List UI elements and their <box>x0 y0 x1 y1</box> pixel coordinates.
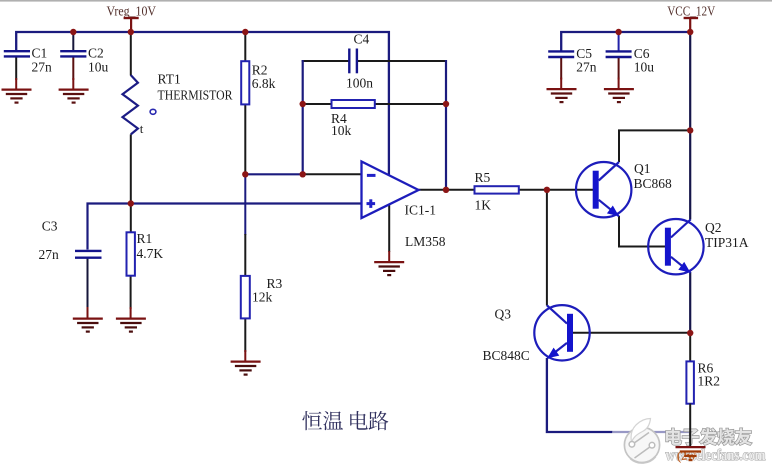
node Q1/Q2 collector <box>687 127 693 133</box>
watermark halo <box>612 418 772 466</box>
svg-text:10u: 10u <box>634 60 655 75</box>
wire C2 lower lead <box>72 57 74 80</box>
ground under C5 <box>547 78 577 103</box>
capacitor C2 <box>60 46 108 75</box>
node op-amp output <box>443 187 449 193</box>
power symbol VCC_12V <box>667 4 715 33</box>
wire op-amp V- lead to ground <box>388 204 390 252</box>
node VCC <box>687 29 693 35</box>
svg-text:TIP31A: TIP31A <box>705 235 749 250</box>
transistor Q3 BC848C <box>483 305 590 363</box>
wire Q3 collector up to R5 node <box>546 190 548 306</box>
ground under C6 <box>604 78 634 103</box>
wire C4 right corner down to output node <box>445 60 447 190</box>
svg-text:27n: 27n <box>576 60 597 75</box>
power symbol Vreg_10V <box>107 4 157 33</box>
ground under R1 <box>116 307 146 332</box>
capacitor C1 <box>4 46 52 75</box>
svg-text:27n: 27n <box>32 60 53 75</box>
svg-text:BC868: BC868 <box>634 176 673 191</box>
capacitor C6 <box>606 46 655 75</box>
node minus/R2 <box>242 171 248 177</box>
wire R5 right to Q1 base <box>519 189 594 191</box>
wire minus node down <box>244 174 246 235</box>
svg-text:1K: 1K <box>475 198 492 213</box>
wire thermistor column upper <box>130 32 132 76</box>
ground under R3 <box>231 350 261 375</box>
wire C6 lower lead <box>618 58 620 80</box>
transistor Q2 TIP31A <box>648 219 749 274</box>
top gray edge band <box>0 0 772 2</box>
wire C4 right lead <box>358 60 447 62</box>
svg-text:4.7K: 4.7K <box>137 246 164 261</box>
wire R4 left lead <box>303 103 332 105</box>
svg-text:R5: R5 <box>475 170 491 185</box>
thermistor RT1 <box>123 72 233 137</box>
wire C4 left lead <box>302 60 349 62</box>
svg-text:R1: R1 <box>137 231 153 246</box>
op-amp U1 IC1-1 LM358 <box>362 162 446 250</box>
wire R6 top lead <box>689 333 691 362</box>
svg-text:Q3: Q3 <box>495 307 512 322</box>
wire C6 upper lead <box>618 32 620 51</box>
node C3/R1 <box>128 200 134 206</box>
svg-text:Q1: Q1 <box>634 161 651 176</box>
wire R2 bottom lead to minus node <box>244 104 246 175</box>
ground under C1 <box>2 78 32 103</box>
wire C5 lower lead <box>560 58 562 80</box>
wire R2 top lead <box>244 32 246 62</box>
resistor R4 <box>331 100 375 138</box>
wire thermistor column lower to node <box>130 134 132 203</box>
wire R3 top lead <box>244 234 246 277</box>
svg-text:C2: C2 <box>88 46 104 61</box>
wire R4 right lead <box>375 103 446 105</box>
svg-text:t: t <box>140 121 144 136</box>
resistor R2 <box>241 61 275 104</box>
capacitor C4 <box>346 32 373 91</box>
wire output row <box>418 189 474 191</box>
node R5/Q1 base/Q3 collector <box>544 187 550 193</box>
svg-text:THERMISTOR: THERMISTOR <box>158 88 233 103</box>
svg-text:10u: 10u <box>88 60 109 75</box>
svg-text:LM358: LM358 <box>405 234 446 249</box>
svg-text:100n: 100n <box>346 76 373 91</box>
wire R3 bottom lead <box>244 318 246 352</box>
svg-text:C4: C4 <box>354 32 370 47</box>
svg-text:RT1: RT1 <box>158 72 181 87</box>
svg-text:VCC_12V: VCC_12V <box>667 4 715 19</box>
node feedback left <box>300 171 306 177</box>
wire top rail from C1 corner to V+ corner <box>16 32 389 175</box>
wire Q2 emitter down to R6 node <box>689 272 691 333</box>
wire node to R1 top <box>130 204 132 234</box>
watermark text 电子发烧友 <box>666 428 752 445</box>
wire C1 lower lead <box>15 57 17 80</box>
wire Q3 base from R6 node <box>573 332 690 334</box>
wire Q1 emitter down and to Q2 base <box>619 216 666 247</box>
wire Q3 emitter down and along bottom to R6 ground node <box>547 358 690 432</box>
wire R1 lower lead <box>130 276 132 310</box>
node R4 right <box>443 101 449 107</box>
svg-text:1R2: 1R2 <box>698 374 721 389</box>
wire plus input row from C3 corner <box>88 204 362 250</box>
svg-text:Vreg_10V: Vreg_10V <box>107 4 157 19</box>
svg-text:Q2: Q2 <box>705 220 722 235</box>
svg-text:12k: 12k <box>252 290 273 305</box>
svg-text:BC848C: BC848C <box>483 348 530 363</box>
resistor R3 <box>241 276 283 319</box>
wire Q1 collector branch <box>619 130 690 162</box>
wire minus row navy part <box>245 173 303 175</box>
node R6 top/Q3 base <box>687 330 693 336</box>
svg-text:10k: 10k <box>331 123 352 138</box>
ground under R6 <box>676 447 706 460</box>
node R4 left <box>300 101 306 107</box>
svg-text:IC1-1: IC1-1 <box>405 203 437 218</box>
resistor R1 <box>127 231 164 276</box>
capacitor C3 <box>39 219 102 263</box>
resistor R5 <box>475 170 519 213</box>
svg-text:27n: 27n <box>39 247 60 262</box>
title text 恒温 电路 <box>302 411 388 430</box>
node C6 top <box>615 29 621 35</box>
node C2/top rail <box>70 29 76 35</box>
resistor R6 <box>686 361 720 404</box>
watermark logo circle <box>624 419 659 463</box>
wire VCC column down to Q2 collector <box>689 32 691 220</box>
ground under C2 <box>59 78 89 103</box>
svg-text:C1: C1 <box>32 46 48 61</box>
node Vreg/thermistor <box>128 29 134 35</box>
wire C5 corner rail to VCC node <box>561 32 690 51</box>
wire C4 left corner down to R4 left and minus node <box>302 60 304 174</box>
svg-text:C3: C3 <box>42 219 58 234</box>
wire R6 bottom lead to ground <box>689 404 691 447</box>
node R2 top <box>242 29 248 35</box>
wire minus row black part into op-amp <box>303 173 362 175</box>
ground under C3 <box>73 307 103 332</box>
capacitor C5 <box>548 46 597 75</box>
wire C2 lead upper <box>72 32 74 51</box>
wire C3 lower lead <box>87 259 89 310</box>
svg-text:6.8k: 6.8k <box>252 76 276 91</box>
ground under op-amp <box>374 262 404 275</box>
transistor Q1 BC868 <box>576 161 672 217</box>
